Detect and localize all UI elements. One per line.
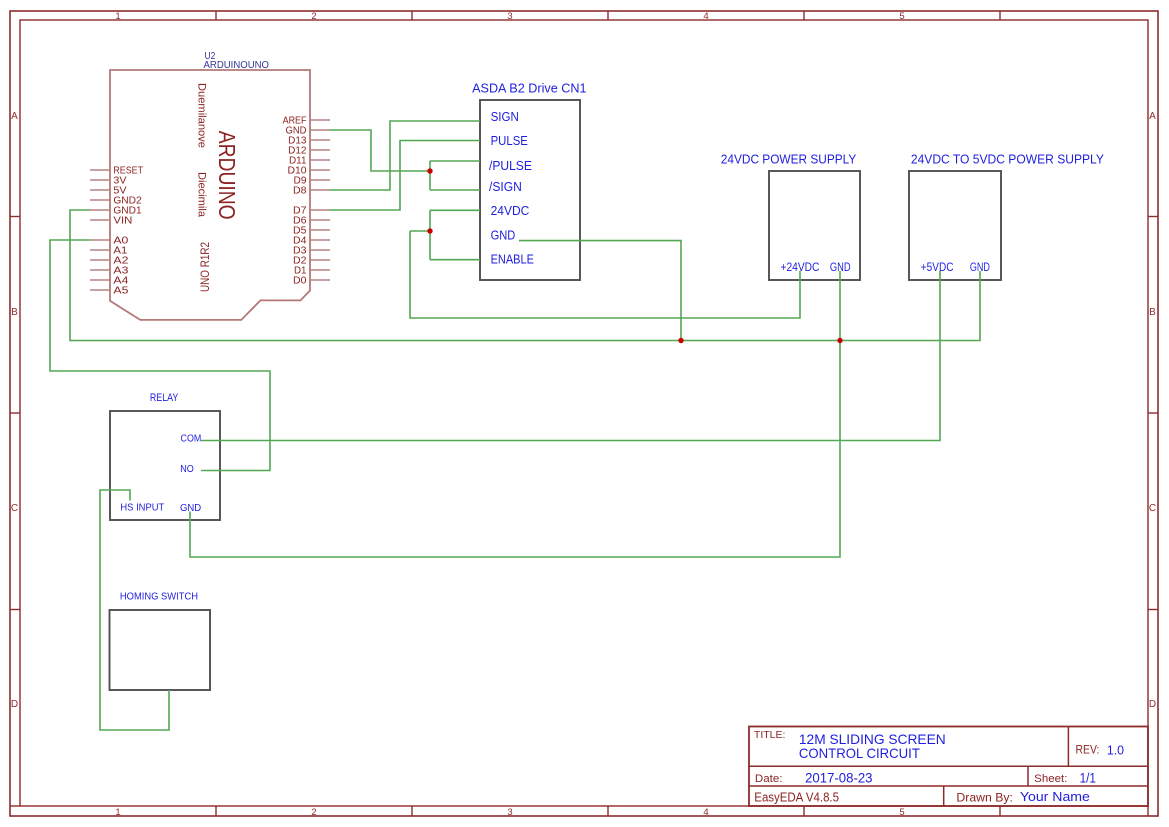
svg-text:Date:: Date:	[755, 773, 783, 785]
wire relay NO to Arduino A0	[50, 240, 270, 471]
svg-text:ARDUINO: ARDUINO	[214, 131, 240, 220]
pin D10	[288, 166, 331, 177]
svg-text:C: C	[11, 503, 18, 514]
pin VIN	[90, 216, 132, 227]
wire GND bus from Arduino GND1 to 5V supply GND	[70, 210, 980, 341]
svg-text:ENABLE: ENABLE	[491, 251, 535, 266]
pin AREF	[283, 116, 330, 127]
pin D1	[294, 266, 330, 277]
component U2 ARDUINOUNO outline	[110, 70, 310, 320]
svg-text:EasyEDA V4.8.5: EasyEDA V4.8.5	[754, 791, 839, 805]
svg-text:Drawn By:: Drawn By:	[956, 790, 1013, 804]
pin 5V	[90, 186, 127, 197]
svg-text:A: A	[11, 111, 18, 122]
svg-text:B: B	[11, 307, 18, 318]
pin A4	[90, 276, 129, 287]
svg-text:D0: D0	[293, 276, 307, 287]
wire D7 to PULSE	[330, 141, 480, 211]
svg-text:COM: COM	[181, 432, 202, 444]
pin D13	[288, 136, 330, 147]
pin D3	[293, 246, 330, 257]
pin A1	[90, 246, 128, 257]
frame row ticks right	[1148, 217, 1158, 610]
pin RESET	[90, 166, 143, 177]
svg-text:/SIGN: /SIGN	[489, 179, 522, 194]
svg-text:3: 3	[507, 11, 512, 22]
svg-text:2: 2	[311, 807, 316, 818]
svg-text:D: D	[11, 699, 18, 710]
pin A0	[90, 236, 129, 247]
svg-text:C: C	[1149, 503, 1156, 514]
svg-text:Your Name: Your Name	[1020, 789, 1090, 804]
pin D8	[293, 186, 330, 197]
pin GND1	[90, 206, 142, 217]
pin D6	[293, 216, 330, 227]
frame column ticks bottom	[216, 806, 1000, 816]
svg-text:Sheet:: Sheet:	[1034, 773, 1067, 785]
wire to /PULSE pin	[430, 160, 480, 162]
wire /PULSE-/SIGN vertical	[429, 161, 431, 190]
svg-text:+5VDC: +5VDC	[921, 262, 954, 274]
wire 24VDC-ENABLE vertical	[429, 210, 431, 259]
svg-text:1/1: 1/1	[1080, 770, 1096, 785]
wire D8 to SIGN	[330, 121, 480, 190]
svg-text:VIN: VIN	[113, 216, 132, 227]
svg-text:3: 3	[507, 807, 512, 818]
pin A3	[90, 266, 129, 277]
svg-text:PULSE: PULSE	[491, 133, 529, 148]
wire 24V supply GND to relay GND	[190, 271, 840, 557]
wire to /SIGN pin	[430, 189, 480, 191]
svg-text:Diecimila: Diecimila	[196, 172, 208, 218]
svg-text:HOMING SWITCH: HOMING SWITCH	[120, 591, 198, 603]
wire relay COM to +5VDC	[201, 271, 940, 441]
wire junction to 24VDC riser	[410, 230, 430, 232]
svg-text:5: 5	[899, 11, 904, 22]
svg-text:4: 4	[703, 11, 708, 22]
svg-text:/PULSE: /PULSE	[489, 158, 532, 173]
pin A2	[90, 256, 129, 267]
junction bus/24V supply GND	[837, 338, 842, 343]
pin D7	[293, 206, 330, 217]
svg-text:UNO R1R2: UNO R1R2	[198, 242, 212, 292]
wire to 24VDC pin	[430, 209, 480, 211]
junction 24VDC/ENABLE	[427, 228, 432, 233]
pin D11	[289, 156, 330, 167]
frame right band bottom extension	[1147, 806, 1149, 816]
svg-text:Duemilanove: Duemilanove	[196, 83, 208, 148]
svg-text:1: 1	[115, 11, 120, 22]
svg-text:NO: NO	[180, 463, 194, 475]
svg-text:TITLE:: TITLE:	[754, 729, 786, 741]
wire relay HS INPUT to homing switch	[100, 490, 169, 730]
pin GND2	[90, 196, 142, 207]
svg-text:24VDC TO 5VDC POWER SUPPLY: 24VDC TO 5VDC POWER SUPPLY	[911, 152, 1104, 167]
svg-text:REV:: REV:	[1076, 742, 1100, 756]
svg-text:D: D	[1149, 699, 1156, 710]
pin D4	[293, 236, 330, 247]
svg-text:1.0: 1.0	[1107, 742, 1124, 757]
frame column numbers top	[115, 11, 904, 22]
frame row letters left	[11, 111, 18, 710]
frame row ticks left	[10, 217, 20, 610]
pin 3V	[90, 176, 127, 187]
svg-text:4: 4	[703, 807, 708, 818]
frame column ticks top	[216, 11, 1000, 20]
svg-text:ARDUINOUNO: ARDUINOUNO	[204, 60, 270, 71]
svg-text:A: A	[1149, 111, 1156, 122]
wire to ENABLE pin	[430, 259, 480, 261]
junction drive GND/bus	[678, 338, 683, 343]
svg-text:5: 5	[899, 807, 904, 818]
component RELAY box	[110, 411, 220, 520]
component HOMING SWITCH box	[110, 610, 211, 690]
svg-text:2017-08-23: 2017-08-23	[805, 769, 873, 785]
pin GND	[286, 126, 331, 137]
svg-text:SIGN: SIGN	[491, 109, 519, 124]
svg-text:RELAY: RELAY	[150, 392, 179, 404]
pin D2	[293, 256, 330, 267]
junction GND//PULSE	[427, 168, 432, 173]
svg-text:B: B	[1149, 307, 1156, 318]
svg-text:D8: D8	[293, 186, 307, 197]
wire Arduino GND to junction	[330, 130, 430, 171]
component 24VDC power supply box	[769, 171, 860, 280]
svg-text:24VDC POWER SUPPLY: 24VDC POWER SUPPLY	[721, 152, 857, 167]
svg-text:HS INPUT: HS INPUT	[120, 501, 164, 513]
svg-text:24VDC: 24VDC	[491, 203, 530, 218]
svg-text:1: 1	[115, 807, 120, 818]
pin D12	[288, 146, 330, 157]
title block	[749, 727, 1148, 807]
svg-text:CONTROL CIRCUIT: CONTROL CIRCUIT	[799, 745, 920, 761]
svg-text:ASDA B2 Drive CN1: ASDA B2 Drive CN1	[472, 80, 586, 95]
component 24VDC to 5VDC power supply box	[909, 171, 1001, 280]
wire +24VDC supply to drive	[410, 231, 800, 318]
component ASDA B2 Drive CN1 box	[480, 100, 580, 280]
pin D9	[294, 176, 331, 187]
svg-text:A5: A5	[113, 286, 129, 297]
wire drive GND down to bus	[519, 241, 681, 341]
svg-text:2: 2	[311, 11, 316, 22]
frame row letters right	[1149, 111, 1156, 710]
frame column numbers bottom	[115, 807, 904, 818]
pin D5	[293, 226, 330, 237]
pin D0	[293, 276, 330, 287]
frame left band bottom closure	[10, 805, 20, 807]
pin A5	[90, 286, 129, 297]
svg-text:GND: GND	[491, 228, 516, 243]
